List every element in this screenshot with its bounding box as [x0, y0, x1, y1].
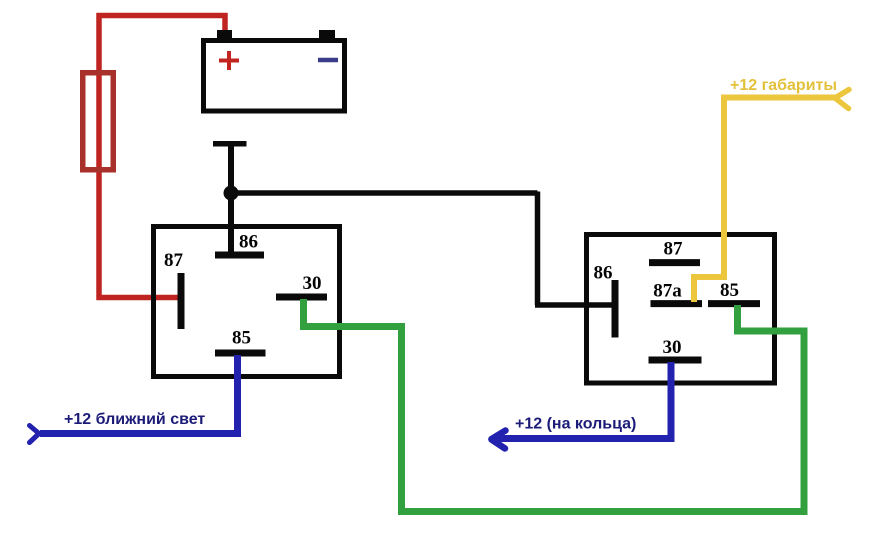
K2 pin 85 terminal bar	[708, 300, 760, 307]
K2 pin label 87a	[653, 281, 682, 302]
yellow arrow head	[835, 90, 849, 109]
battery B1 body	[204, 41, 345, 112]
K2 pin label 86	[594, 263, 613, 284]
K2 pin 87 terminal bar	[649, 259, 700, 266]
blue arrow head for +12 (на кольца)	[492, 431, 506, 449]
relay K1 body	[154, 227, 340, 377]
svg-text:87: 87	[164, 250, 184, 271]
battery negative terminal post	[319, 30, 335, 40]
wire red: drop to battery positive terminal	[222, 13, 228, 33]
K2 pin label 30	[663, 337, 682, 358]
wire red: left vertical through fuse down to relay K1 pin 87 level	[96, 13, 102, 300]
K1 pin label 87	[164, 250, 184, 271]
wire red: horizontal into relay K1 pin 87	[97, 295, 180, 301]
relay K2 body	[587, 235, 775, 384]
wire red: battery plus to fuse (top horizontal)	[97, 13, 228, 19]
K2 pin 30 terminal bar	[649, 357, 702, 364]
K1 pin 30 terminal bar	[276, 294, 327, 301]
svg-text:85: 85	[720, 280, 739, 301]
wire green: K1 pin 30 to K2 pin 85	[304, 299, 805, 512]
svg-text:+12 (на кольца): +12 (на кольца)	[515, 416, 636, 433]
net label +12 (на кольца)	[515, 416, 636, 433]
K1 pin label 30	[303, 273, 322, 294]
net label +12 ближний свет	[64, 411, 205, 428]
K1 pin 86 terminal bar	[215, 252, 264, 259]
svg-text:+12 ближний свет: +12 ближний свет	[64, 411, 205, 428]
K2 pin 86 terminal bar	[612, 280, 619, 338]
svg-text:87a: 87a	[653, 281, 682, 302]
wire black: junction to relay K2 pin 86	[231, 192, 613, 306]
svg-text:86: 86	[239, 232, 258, 253]
svg-text:+12 габариты: +12 габариты	[730, 77, 837, 94]
K2 pin label 87	[664, 239, 684, 260]
svg-text:85: 85	[232, 328, 251, 349]
fuse F1	[83, 73, 114, 170]
K2 pin 87a terminal bar	[651, 300, 703, 307]
svg-text:30: 30	[663, 337, 682, 358]
junction node dot	[224, 186, 239, 201]
wire blue: K1 pin 85 to headlight feed	[40, 355, 238, 434]
battery minus sign	[318, 58, 338, 63]
K1 pin label 86	[239, 232, 258, 253]
blue arrow head (crow foot) for +12 ближний свет	[30, 426, 40, 443]
wire blue: K2 pin 30 to ring feed	[492, 362, 671, 439]
K1 pin 85 terminal bar	[215, 350, 266, 357]
net label +12 габариты	[730, 77, 837, 94]
svg-text:87: 87	[664, 239, 684, 260]
svg-text:86: 86	[594, 263, 613, 284]
battery positive terminal post	[217, 30, 232, 40]
wire yellow: +12 габариты feed to K2 pin 87a	[691, 95, 835, 303]
K1 pin 87 terminal bar	[178, 273, 185, 329]
switch contact T symbol above junction	[213, 144, 247, 255]
battery plus sign	[219, 51, 239, 70]
svg-text:30: 30	[303, 273, 322, 294]
K1 pin label 85	[232, 328, 251, 349]
K2 pin label 85	[720, 280, 739, 301]
